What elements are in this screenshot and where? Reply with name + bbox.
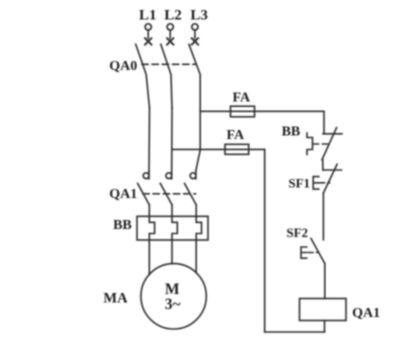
contactor QA1 pole2 terminal [171,172,173,179]
button SF2 actuator E [301,247,307,258]
fuse FA1 body [231,106,255,117]
fuse FA2 body [225,144,249,154]
contact BB blade [322,128,337,160]
terminal L1 lead wire [147,30,149,38]
wire FA2 right [249,148,265,150]
breaker QA0 pole 1 blade [136,44,150,108]
button SF2 linkage dash [309,252,319,254]
svg-text:FA: FA [227,128,246,143]
button SF1 NC bar [323,169,342,171]
relay BB box [137,216,208,240]
svg-text:3~: 3~ [165,296,181,313]
relay BB heater pole1 [149,205,154,240]
contact BB NC bar [323,133,342,135]
breaker QA0 pole 2 blade [161,44,172,108]
button SF2 blade [311,239,325,264]
svg-text:BB: BB [113,218,132,233]
wire phase1 vertical QA0 to QA1 [148,108,151,172]
svg-text:QA1: QA1 [352,306,380,321]
wire FA1 right to control branch [255,110,325,112]
breaker QA0 pole 3 blade [189,44,200,108]
svg-text:L1: L1 [139,8,157,24]
svg-text:BB: BB [282,124,301,139]
wire phase3 vertical QA0 to QA1 [196,108,200,171]
button SF1 actuator E [313,177,319,190]
contactor QA1 pole3 arc [190,173,196,179]
wire FA1 left [200,110,230,112]
svg-text:SF2: SF2 [286,225,308,240]
svg-text:QA0: QA0 [109,59,137,74]
contactor QA1 pole3 terminal [195,171,197,179]
contactor QA1 pole1 arc [143,173,149,179]
terminal L3 lead wire [194,30,196,38]
contactor QA1 pole2 arc [166,173,172,179]
terminal L3 circle [192,24,198,30]
fuse FA2 wire through [225,148,249,150]
wire control branch corner down [323,111,325,134]
svg-text:SF1: SF1 [288,175,310,190]
wire coil bottom stub [324,321,326,333]
wire SF1 to SF2 [322,193,324,240]
terminal L3 X mark [192,38,198,44]
terminal L1 circle [145,24,151,30]
relay BB heater pole3 [196,205,201,240]
contact BB linkage dash [314,143,330,145]
wire FA2 left [172,148,225,150]
contactor QA1 linkage dashed [143,193,196,195]
terminal L2 X mark [167,38,173,44]
terminal L2 circle [167,24,173,30]
contactor QA1 pole1 terminal [148,172,150,179]
contactor QA1 pole2 blade [160,183,172,204]
wire BB to motor pole1 [148,240,150,275]
coil QA1 body [300,299,347,321]
breaker QA0 linkage dashed [142,63,196,65]
wire bottom return [265,331,325,333]
contactor QA1 pole3 blade [185,183,197,204]
svg-text:FA: FA [233,90,252,105]
button SF1 linkage dash [320,182,330,184]
relay BB heater pole2 [172,205,177,240]
svg-text:L3: L3 [190,8,208,24]
wire phase2 vertical QA0 to QA1 [171,108,173,172]
wire BB to SF1 [322,160,324,170]
svg-text:MA: MA [103,290,128,306]
contactor QA1 pole1 blade [138,183,150,204]
wire SF2 to coil [324,264,326,299]
fuse FA1 wire through [231,110,255,112]
motor MA circle [141,264,206,329]
svg-text:QA1: QA1 [109,187,137,202]
terminal L2 lead wire [169,30,171,38]
wire FA2 branch vertical down [264,149,266,332]
wire BB to motor pole2 [171,240,173,264]
button SF1 blade [323,164,337,193]
contact BB thermal paddle [307,133,313,155]
svg-text:L2: L2 [164,8,182,24]
terminal L1 X mark [145,38,151,44]
wire BB to motor pole3 [195,240,197,273]
